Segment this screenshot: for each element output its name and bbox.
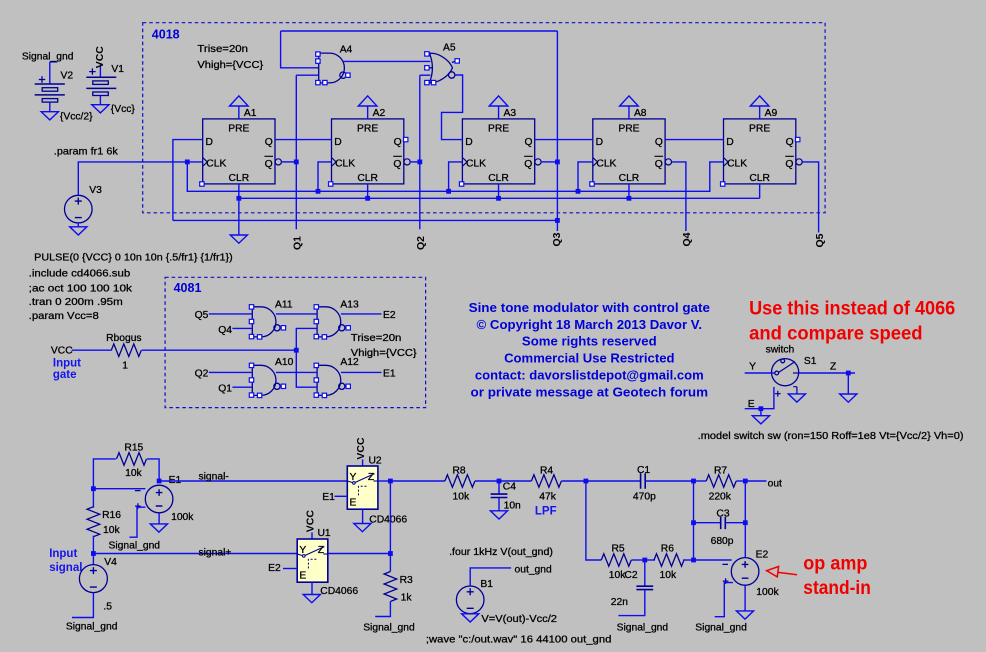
resistor R7	[706, 475, 736, 488]
svg-text:PRE: PRE	[618, 123, 639, 134]
svg-text:R16: R16	[102, 510, 121, 521]
wire E2 to ground	[744, 585, 746, 611]
wire A8.Qbar to node Q4	[672, 162, 686, 231]
svg-text:Q4: Q4	[681, 232, 693, 246]
svg-text:1k: 1k	[401, 593, 413, 604]
wire right column to E2	[744, 481, 746, 558]
svg-text:R5: R5	[612, 544, 625, 555]
flip-flop A2	[332, 119, 411, 184]
wire A12 output to E1	[341, 371, 382, 373]
svg-text:LPF: LPF	[535, 506, 557, 518]
ground under switch	[788, 394, 805, 402]
wire E1 to U2.E	[335, 495, 348, 497]
op-amp stand-in source E2	[722, 558, 758, 586]
svg-text:{Vcc/2}: {Vcc/2}	[60, 112, 93, 123]
svg-text:Signal_gnd: Signal_gnd	[617, 623, 669, 634]
svg-text:and compare speed: and compare speed	[749, 324, 923, 345]
svg-text:E2: E2	[383, 310, 396, 321]
analog switch U1 CD4066	[297, 539, 328, 582]
svg-text:Q: Q	[655, 137, 663, 148]
svg-text:V4: V4	[104, 557, 117, 568]
svg-text:VCC: VCC	[51, 345, 73, 356]
pin markers A11 unconnected	[249, 305, 285, 339]
svg-text:A12: A12	[340, 357, 359, 368]
resistor R4	[531, 475, 561, 488]
svg-text:out_gnd: out_gnd	[515, 565, 552, 576]
svg-text:op amp: op amp	[803, 553, 867, 574]
wire feedback column left	[693, 481, 695, 560]
wire LPF node down to R5	[586, 481, 601, 560]
node R6/E2 junction	[691, 558, 696, 563]
ground under C4	[490, 511, 507, 519]
wire clock jog A8	[578, 162, 593, 191]
comment text red (use this)	[749, 298, 955, 344]
pin marker A1 bottom-left	[200, 182, 204, 186]
node C2 junction	[642, 558, 647, 563]
svg-text:220k: 220k	[709, 492, 732, 503]
svg-text:CLK: CLK	[596, 158, 616, 169]
wire Q1 to A4 input	[296, 74, 318, 76]
switch S1	[772, 359, 799, 397]
wire Q2 to A5 input	[420, 74, 431, 76]
svg-text:Q5: Q5	[814, 233, 826, 247]
pin markers A5 unconnected	[425, 52, 460, 85]
pin markers A13 unconnected	[314, 305, 350, 339]
svg-text:Rbogus: Rbogus	[106, 333, 142, 344]
wire A10 output to A12	[276, 371, 317, 373]
wire CLR bus	[239, 197, 760, 199]
dashed box 4018	[143, 23, 825, 213]
wire A1.CLR stem to ground	[238, 184, 240, 235]
svg-text:U2: U2	[369, 456, 382, 467]
svg-text:PULSE(0 {VCC} 0 10n 10n {.5/fr: PULSE(0 {VCC} 0 10n 10n {.5/fr1} {1/fr1}…	[34, 252, 233, 263]
wire out stub	[745, 480, 766, 482]
ground under E2	[736, 611, 753, 619]
node R7/out junction	[743, 479, 748, 484]
wire U2.Z to output node	[378, 480, 391, 482]
svg-text:1: 1	[122, 360, 128, 371]
svg-text:E2: E2	[756, 550, 769, 561]
wire VCC stub U1	[311, 532, 313, 539]
svg-text:Some rights reserved: Some rights reserved	[522, 334, 657, 348]
svg-text:E: E	[350, 498, 357, 509]
svg-text:Signal_gnd: Signal_gnd	[363, 623, 415, 634]
svg-text:100k: 100k	[171, 512, 194, 523]
flip-flop A1	[203, 119, 282, 184]
svg-text:V1: V1	[111, 64, 124, 75]
svg-text:E: E	[299, 571, 306, 582]
svg-text:Signal_gnd: Signal_gnd	[695, 623, 747, 634]
pin markers A4 unconnected	[316, 52, 350, 85]
pin marker A8 bottom-left	[590, 182, 594, 186]
wire B1 to out_gnd	[470, 568, 511, 586]
svg-text:CLR: CLR	[749, 173, 770, 184]
svg-text:CLR: CLR	[357, 173, 378, 184]
svg-text:VCC: VCC	[94, 46, 106, 69]
svg-text:CLK: CLK	[727, 158, 747, 169]
resistor R6	[654, 554, 684, 567]
svg-text:4081: 4081	[174, 281, 202, 295]
op-amp stand-in source E1	[135, 485, 173, 513]
svg-text:Input: Input	[49, 548, 77, 560]
svg-text:V2: V2	[61, 71, 74, 82]
svg-text:CLR: CLR	[229, 173, 250, 184]
node clock jog A3 junction	[446, 189, 451, 194]
svg-text:.5: .5	[103, 602, 112, 613]
svg-text:Commercial Use Restricted: Commercial Use Restricted	[504, 351, 674, 365]
wire E1 to ground	[158, 513, 160, 524]
svg-text:10k: 10k	[103, 525, 120, 536]
svg-text:Q2: Q2	[195, 368, 209, 379]
dashed box 4081	[165, 277, 426, 407]
node clock jog A8 junction	[576, 189, 581, 194]
AND gate A13	[317, 307, 345, 337]
voltage source V3 pulse	[65, 195, 93, 223]
resistor Rbogus	[111, 344, 141, 357]
wire R7 to out node	[736, 480, 745, 482]
svg-text:contact: davorslistdepot@gmail: contact: davorslistdepot@gmail.com	[475, 368, 704, 382]
wire switch to Z	[799, 372, 855, 374]
node U2.Z junction	[388, 479, 393, 484]
svg-text:.include cd4066.sub: .include cd4066.sub	[29, 269, 131, 280]
wire E1 plus input to Signal_gnd	[129, 507, 145, 537]
svg-text:A1: A1	[244, 108, 257, 119]
svg-text:D: D	[334, 137, 341, 148]
wire A8.CLR stem	[628, 184, 630, 198]
svg-text:47k: 47k	[539, 492, 556, 503]
wire Rbogus to 4081	[142, 349, 297, 351]
svg-text:Q5: Q5	[195, 310, 209, 321]
wire R4 to LPF node	[561, 480, 586, 482]
wire Q1 vertical	[295, 75, 297, 229]
svg-text:gate: gate	[53, 369, 77, 381]
svg-text:.param fr1 6k: .param fr1 6k	[54, 147, 119, 158]
svg-text:.model switch sw (ron=150 Roff: .model switch sw (ron=150 Roff=1e8 Vt={V…	[698, 431, 964, 442]
node E junction	[759, 406, 764, 411]
svg-text:stand-in: stand-in	[803, 578, 871, 599]
wire switch output column	[389, 481, 391, 554]
svg-text:switch: switch	[766, 345, 795, 356]
svg-text:PRE: PRE	[749, 123, 770, 134]
wire A11 output to A13	[276, 313, 317, 315]
svg-text:Q: Q	[265, 137, 273, 148]
node Q3 to feedback bus junction	[555, 218, 560, 223]
node C3 left junction	[691, 520, 696, 525]
wire Y to switch	[745, 372, 775, 374]
svg-text:D: D	[726, 137, 733, 148]
wire E2 minus input	[694, 559, 732, 561]
wire A4 output to A5 input	[343, 60, 431, 62]
wire A3.Q to A8.D	[535, 139, 593, 141]
wire R5 to C2 node	[631, 559, 645, 561]
svg-text:C2: C2	[624, 570, 637, 581]
svg-text:Q3: Q3	[551, 232, 563, 246]
svg-text:Q: Q	[265, 159, 273, 170]
wire signal- net	[159, 480, 347, 482]
svg-text:Input: Input	[53, 358, 81, 370]
wire A1.Qbar to node Q1	[282, 161, 296, 163]
svg-text:A10: A10	[275, 357, 294, 368]
svg-text:VCC: VCC	[304, 510, 316, 533]
svg-text:S1: S1	[804, 356, 817, 367]
wire gate control vertical	[296, 328, 317, 387]
node U1.Z junction	[388, 551, 393, 556]
svg-text:Signal_gnd: Signal_gnd	[109, 541, 161, 552]
svg-text:22n: 22n	[611, 597, 628, 608]
svg-text:D: D	[596, 137, 603, 148]
svg-text:Use this instead of 4066: Use this instead of 4066	[749, 298, 955, 319]
node C4 junction	[497, 479, 502, 484]
wire feedback bus	[173, 219, 558, 221]
svg-text:Trise=20n: Trise=20n	[351, 333, 402, 344]
svg-text:R7: R7	[714, 465, 727, 476]
wire E to switch	[745, 387, 774, 409]
wire Q2 to A10	[209, 371, 253, 373]
VCC arrow above A1	[230, 96, 249, 106]
svg-text:Q: Q	[394, 137, 402, 148]
svg-text:10k: 10k	[453, 492, 470, 503]
node E1 minus junction	[91, 486, 96, 491]
svg-text:R8: R8	[453, 465, 466, 476]
svg-text:680p: 680p	[711, 536, 734, 547]
svg-text:PRE: PRE	[357, 123, 378, 134]
svg-text:Q: Q	[525, 137, 533, 148]
wire clock jog A3	[449, 162, 463, 191]
svg-text:R4: R4	[540, 465, 553, 476]
flip-flop A3	[462, 119, 541, 184]
flip-flop A8	[593, 119, 672, 184]
wire clock bus	[187, 162, 723, 191]
capacitor C1	[586, 480, 641, 482]
svg-text:© Copyright 18 March 2013 Davo: © Copyright 18 March 2013 Davor V.	[477, 318, 703, 332]
wire R15 to E1 output	[147, 459, 159, 481]
svg-text:10n: 10n	[504, 500, 521, 511]
behavioral source B1	[456, 586, 484, 614]
svg-text:CD4066: CD4066	[320, 586, 358, 597]
VCC arrow above A3	[489, 96, 508, 106]
svg-text:{Vcc}: {Vcc}	[111, 104, 136, 115]
svg-text:A2: A2	[373, 108, 386, 119]
wire A1.Q to A2.D	[275, 139, 332, 141]
svg-text:VCC: VCC	[355, 437, 367, 460]
svg-text:;wave "c:/out.wav" 16 44100 ou: ;wave "c:/out.wav" 16 44100 out_gnd	[426, 634, 612, 645]
svg-text:out: out	[768, 479, 782, 490]
wire C4 to R4	[499, 480, 531, 482]
wire U1.Z to output node	[328, 553, 391, 555]
wire top feedback Q3 to A4	[281, 30, 558, 32]
svg-text:A13: A13	[340, 299, 359, 310]
wire signal+ net	[93, 553, 297, 555]
VCC arrow above A2	[358, 96, 377, 106]
svg-text:CLK: CLK	[335, 158, 355, 169]
node Q3 junction	[555, 160, 560, 165]
ground under B1	[462, 614, 479, 622]
node LPF junction	[584, 479, 589, 484]
resistor R15	[117, 453, 147, 466]
node A8.CLR junction	[627, 196, 632, 201]
wire Q5 to A11	[209, 313, 253, 315]
svg-text:.tran 0 200m .95m: .tran 0 200m .95m	[29, 297, 123, 308]
svg-text:Signal_gnd: Signal_gnd	[66, 622, 118, 633]
wire VCC to Rbogus	[72, 349, 112, 351]
svg-text:10k: 10k	[125, 468, 142, 479]
voltage source V1 battery	[86, 64, 116, 105]
svg-text:Trise=20n: Trise=20n	[197, 44, 248, 55]
pin markers A10 unconnected	[249, 363, 285, 397]
svg-text:A3: A3	[504, 108, 517, 119]
node clock junction at A1.CLK	[185, 160, 190, 165]
wire to E1 minus input	[93, 488, 145, 490]
svg-text:CLR: CLR	[619, 173, 640, 184]
wire V4 to Signal_gnd	[72, 593, 93, 618]
svg-text:Q: Q	[785, 159, 793, 170]
svg-text:CLK: CLK	[206, 158, 226, 169]
node C1 right junction	[691, 479, 696, 484]
svg-text:Q4: Q4	[218, 325, 232, 336]
wire A4 upper input drop	[281, 31, 319, 68]
svg-text:;ac oct 100 100 10k: ;ac oct 100 100 10k	[29, 283, 133, 294]
wire R15 feedback loop	[93, 459, 116, 489]
wire A3.CLR stem	[498, 184, 500, 198]
svg-text:10k: 10k	[660, 570, 677, 581]
svg-text:470p: 470p	[633, 492, 656, 503]
svg-text:V3: V3	[89, 185, 102, 196]
svg-text:or private message at Geotech: or private message at Geotech forum	[471, 385, 709, 399]
pin marker A2 Q unconnected	[404, 137, 408, 141]
node Q1 junction	[294, 160, 299, 165]
wire Z to ground	[847, 373, 849, 394]
svg-text:4018: 4018	[152, 28, 180, 42]
node Q2 junction	[417, 160, 422, 165]
svg-text:R6: R6	[661, 544, 674, 555]
svg-text:Q1: Q1	[292, 236, 304, 250]
node gate control junction	[294, 348, 299, 353]
node E1 output junction	[157, 479, 162, 484]
svg-text:signal+: signal+	[199, 547, 232, 558]
node A1.CLR junction	[236, 196, 241, 201]
ground under V3	[77, 223, 79, 227]
wire E to ground	[760, 409, 762, 416]
wire A5 output jog to A3.D	[442, 75, 463, 140]
svg-text:signal-: signal-	[199, 472, 229, 483]
wire R6 to E2 node	[683, 559, 694, 561]
svg-text:A11: A11	[275, 299, 293, 310]
capacitor C3	[694, 522, 721, 524]
wire A8.Q to A9.D	[665, 139, 723, 141]
wire A9.Qbar to node Q5	[803, 162, 819, 233]
ground under U2	[354, 524, 371, 532]
ground under V1	[92, 105, 109, 113]
svg-text:Y: Y	[749, 361, 756, 372]
resistor R8	[445, 475, 475, 488]
node input junction V4/R16	[91, 551, 96, 556]
wire A2.CLR stem	[367, 184, 369, 198]
svg-text:R15: R15	[124, 443, 143, 454]
ground under V2	[41, 112, 58, 120]
wire U1 to ground	[311, 582, 313, 594]
wire Q3 vertical	[556, 31, 558, 231]
svg-text:C1: C1	[637, 465, 650, 476]
svg-text:Q: Q	[393, 159, 401, 170]
AND gate A11	[252, 307, 280, 337]
svg-text:E1: E1	[322, 492, 335, 503]
svg-text:E1: E1	[383, 368, 396, 379]
svg-text:Q: Q	[786, 137, 794, 148]
resistor R3	[389, 554, 391, 572]
resistor R5	[601, 554, 631, 567]
red arrow annotation	[767, 567, 797, 577]
ground at Z	[840, 394, 857, 402]
flip-flop A9	[724, 119, 803, 184]
wire clock jog A2	[318, 162, 332, 191]
svg-text:Vhigh={VCC}: Vhigh={VCC}	[351, 348, 417, 359]
svg-text:E2: E2	[268, 563, 281, 574]
wire C2 node to R6	[645, 559, 655, 561]
svg-text:100k: 100k	[756, 587, 779, 598]
svg-text:.param Vcc=8: .param Vcc=8	[29, 311, 99, 322]
svg-text:D: D	[465, 137, 472, 148]
pin markers A12 unconnected	[314, 363, 350, 397]
svg-text:CD4066: CD4066	[369, 515, 407, 526]
node Z junction	[846, 371, 851, 376]
wire A3.Qbar to node Q3	[542, 161, 558, 163]
capacitor C4	[498, 481, 500, 494]
wire A1.D feedback vertical	[173, 140, 203, 221]
wire Q1 to A10	[232, 386, 252, 388]
svg-text:PRE: PRE	[488, 123, 509, 134]
pin marker A9 Q unconnected	[796, 137, 800, 141]
svg-text:signal: signal	[49, 562, 82, 574]
comment text block (blue)	[469, 301, 710, 399]
comment red op amp stand-in	[803, 553, 871, 599]
svg-text:U1: U1	[318, 528, 331, 539]
svg-text:A9: A9	[765, 108, 778, 119]
svg-text:A5: A5	[443, 43, 456, 54]
AND gate A10	[252, 365, 280, 395]
wire Q4 to A11	[232, 327, 252, 329]
svg-text:B1: B1	[480, 579, 493, 590]
wire node to R8	[390, 480, 445, 482]
AND gate A12	[317, 365, 345, 395]
svg-text:CLK: CLK	[466, 158, 486, 169]
wire VCC stub U2	[362, 459, 364, 466]
svg-text:D: D	[206, 137, 213, 148]
capacitor C2	[644, 560, 646, 586]
pin marker A2 bottom-left	[329, 182, 333, 186]
svg-text:V=V(out)-Vcc/2: V=V(out)-Vcc/2	[481, 614, 557, 625]
wire C1 to R7	[694, 480, 707, 482]
analog switch U2 CD4066	[347, 466, 378, 509]
svg-text:Z: Z	[830, 361, 836, 372]
svg-text:R3: R3	[400, 575, 413, 586]
svg-text:C3: C3	[716, 508, 729, 519]
svg-text:A4: A4	[340, 44, 353, 55]
pin marker A9 bottom-left	[721, 182, 725, 186]
svg-text:Q: Q	[524, 159, 532, 170]
wire Q2 vertical	[419, 75, 421, 229]
wire B1 to ground	[469, 613, 471, 615]
ground under U1	[303, 595, 320, 603]
wire A2.Qbar to node Q2	[411, 161, 420, 163]
ground at E	[752, 416, 769, 424]
VCC arrow above A8	[620, 96, 639, 106]
resistor R16	[92, 489, 94, 508]
wire switch pole to ground	[796, 391, 798, 394]
node A2.CLR junction	[365, 196, 370, 201]
svg-text:Vhigh={VCC}: Vhigh={VCC}	[197, 60, 263, 71]
node C3 right junction	[743, 520, 748, 525]
svg-text:.four 1kHz V(out_gnd): .four 1kHz V(out_gnd)	[449, 547, 553, 558]
